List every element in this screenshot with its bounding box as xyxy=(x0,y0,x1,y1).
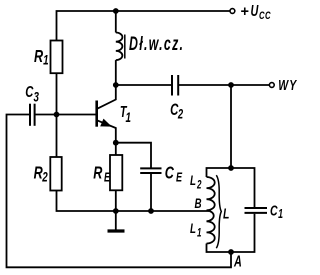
inductor choke Dl.w.cz. xyxy=(116,11,123,85)
svg-text:Dł.w.cz.: Dł.w.cz. xyxy=(129,34,183,55)
wire to WY terminal xyxy=(231,84,269,86)
resistor R1 xyxy=(51,41,63,74)
wire RE bottom to rail xyxy=(115,190,117,211)
wire emitter node to CE branch xyxy=(116,143,151,168)
node base junction xyxy=(54,112,60,118)
svg-text:3: 3 xyxy=(34,89,40,105)
label R1 xyxy=(34,47,49,68)
node emitter junction xyxy=(113,140,119,146)
svg-text:E: E xyxy=(104,171,110,185)
wire tank bottom rail xyxy=(207,214,255,252)
svg-text:C: C xyxy=(165,164,175,184)
label L1 xyxy=(190,220,201,240)
wire collector node to C2 xyxy=(116,84,171,86)
svg-text:1: 1 xyxy=(126,109,132,125)
svg-text:+: + xyxy=(240,4,249,20)
node tank top junction xyxy=(228,165,234,171)
svg-text:L: L xyxy=(190,172,196,188)
capacitor C1 xyxy=(245,208,268,213)
svg-text:2: 2 xyxy=(196,179,202,192)
svg-text:2: 2 xyxy=(177,107,183,122)
resistor R2 xyxy=(50,157,61,191)
svg-text:A: A xyxy=(233,253,242,270)
label Dl.w.cz. xyxy=(129,34,183,55)
ground xyxy=(108,211,125,231)
label R2 xyxy=(34,163,48,185)
svg-text:U: U xyxy=(251,2,259,19)
svg-text:2: 2 xyxy=(41,169,47,185)
wire output node down to tank xyxy=(230,85,232,168)
label C3 xyxy=(25,82,39,105)
svg-text:CC: CC xyxy=(259,10,271,23)
choke core line xyxy=(124,35,126,59)
label B xyxy=(195,195,202,211)
terminal +Ucc circle xyxy=(230,9,235,14)
node ground junction xyxy=(113,208,119,214)
label C1 xyxy=(270,202,283,222)
svg-text:R: R xyxy=(93,164,103,184)
label C2 xyxy=(170,100,183,122)
wire R2 bottom to ground rail xyxy=(57,191,210,212)
svg-text:L: L xyxy=(223,205,229,222)
capacitor C3 xyxy=(30,104,57,126)
svg-text:E: E xyxy=(176,171,182,185)
svg-text:R: R xyxy=(34,47,44,67)
label +Ucc xyxy=(240,2,271,22)
brace for L xyxy=(216,175,221,248)
wire base node to transistor xyxy=(57,114,97,116)
svg-text:WY: WY xyxy=(278,76,297,93)
svg-text:B: B xyxy=(195,195,202,211)
node CE bottom junction xyxy=(148,208,154,214)
label L xyxy=(223,205,229,222)
wire feedback loop A to C3 xyxy=(7,115,232,268)
svg-text:L: L xyxy=(190,220,196,236)
label WY xyxy=(278,76,297,93)
transistor T1 xyxy=(97,85,116,143)
node junction top rail / choke xyxy=(113,8,119,14)
wire emitter to RE xyxy=(115,143,117,155)
capacitor C2 xyxy=(172,75,231,96)
wire base node down to R2 xyxy=(56,115,58,158)
svg-text:C: C xyxy=(25,82,34,101)
label A xyxy=(233,253,242,270)
svg-text:1: 1 xyxy=(278,208,283,222)
inductor L (L2 upper, L1 lower) xyxy=(207,177,215,244)
resistor RE xyxy=(110,155,122,190)
svg-text:C: C xyxy=(270,202,278,219)
capacitor CE xyxy=(140,168,161,211)
node output junction xyxy=(228,82,234,88)
terminal WY circle xyxy=(269,83,274,88)
wire top supply rail xyxy=(57,11,230,41)
label L2 xyxy=(190,172,202,192)
label RE xyxy=(93,164,110,185)
wire R1 bottom to base node xyxy=(56,73,58,114)
node A junction xyxy=(228,249,234,255)
node collector junction xyxy=(113,82,119,88)
svg-text:1: 1 xyxy=(197,227,201,240)
label CE xyxy=(165,164,183,185)
label T1 xyxy=(120,103,131,125)
wire tank top rail xyxy=(207,168,255,207)
svg-text:1: 1 xyxy=(43,52,49,68)
